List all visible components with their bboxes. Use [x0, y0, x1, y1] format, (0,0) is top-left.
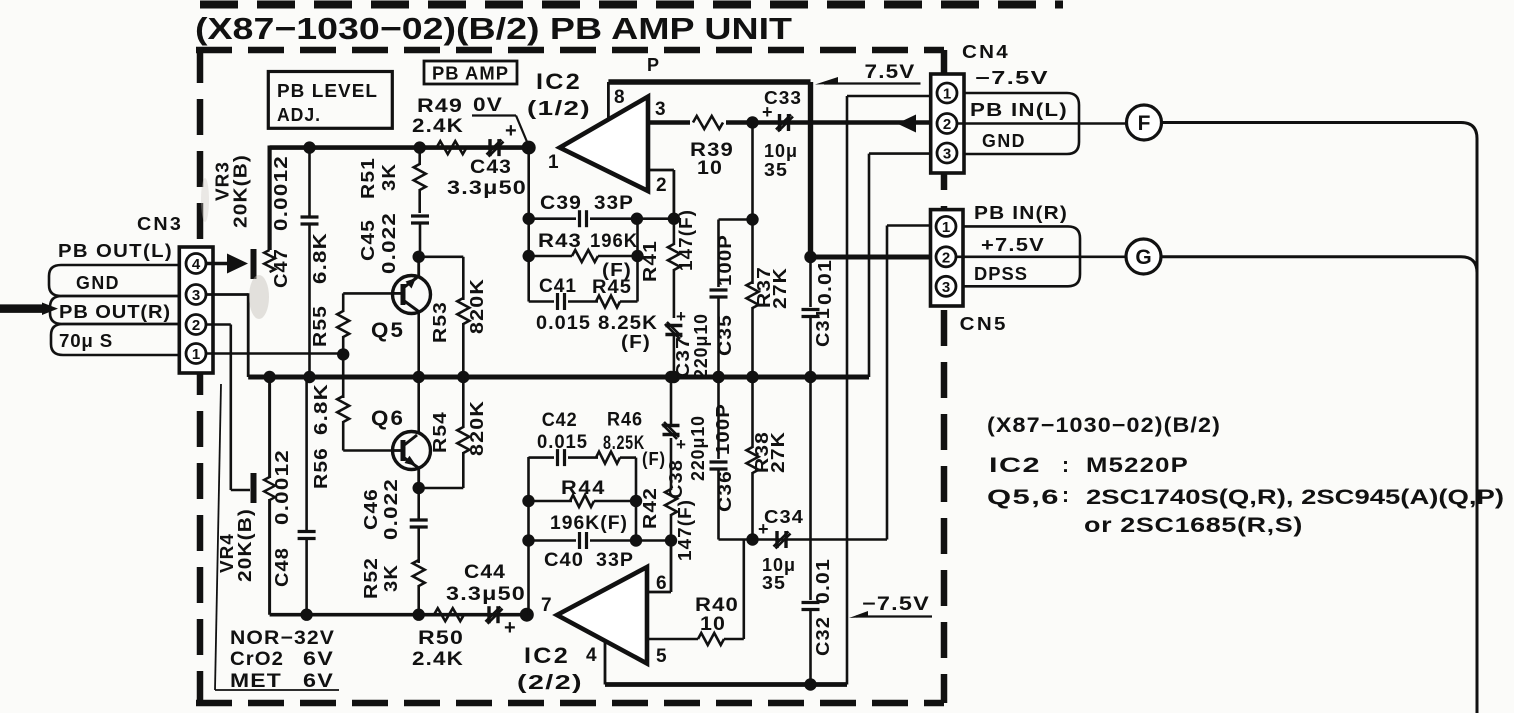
- capacitor C36 100P: [717, 377, 720, 459]
- connector CN3: [179, 247, 213, 373]
- svg-text:C48: C48: [272, 547, 292, 587]
- svg-text:(F): (F): [621, 332, 651, 352]
- svg-text:10μ: 10μ: [764, 141, 798, 161]
- svg-text:C47: C47: [271, 248, 291, 288]
- svg-text:7: 7: [541, 595, 552, 616]
- svg-text:C43: C43: [470, 157, 512, 178]
- svg-text:35: 35: [762, 573, 786, 593]
- svg-text:Q6: Q6: [371, 407, 405, 430]
- svg-text:R56: R56: [311, 447, 331, 489]
- svg-text:6V: 6V: [303, 649, 334, 670]
- wire: inverting node column: [527, 148, 530, 302]
- svg-text:0.0012: 0.0012: [271, 155, 291, 231]
- svg-text:1: 1: [548, 152, 559, 173]
- wire: top signal rail VR3 to IC2 input: [270, 145, 529, 150]
- svg-text:R53: R53: [430, 301, 450, 343]
- svg-text:CN4: CN4: [962, 42, 1010, 62]
- svg-text:2SC1740S(Q,R), 2SC945(A)(Q,P): 2SC1740S(Q,R), 2SC945(A)(Q,P): [1086, 486, 1504, 509]
- svg-text:R54: R54: [430, 411, 450, 453]
- resistor R52 3K: [413, 560, 425, 586]
- svg-text:1: 1: [192, 346, 200, 363]
- wire: G to right edge joining F line: [1161, 257, 1477, 290]
- resistor R53 820K: [457, 298, 469, 324]
- wire: IC2 pin4 supply drop: [604, 641, 607, 685]
- wire: R37 column: [751, 123, 754, 285]
- svg-text:35: 35: [764, 160, 788, 180]
- svg-text:GND: GND: [982, 131, 1026, 151]
- wire: F to right edge and down: [1162, 123, 1478, 713]
- potentiometer VR3 20K(B): [205, 262, 228, 266]
- resistor R39 10: [690, 114, 726, 131]
- wire: CN5 pin1 PB IN(R) drop: [887, 224, 931, 227]
- svg-text::: :: [1062, 484, 1069, 507]
- junction circle G: [1126, 239, 1161, 274]
- svg-text:2: 2: [943, 116, 951, 133]
- svg-text:(2/2): (2/2): [517, 672, 583, 694]
- svg-text:P: P: [647, 55, 659, 75]
- capacitor C35 100P: [710, 288, 728, 291]
- resistor R43 196K(F): [529, 255, 572, 258]
- resistor R56 6.8K: [342, 354, 345, 398]
- svg-text:R41: R41: [640, 240, 660, 282]
- svg-text:3: 3: [942, 279, 950, 296]
- svg-text:CN5: CN5: [960, 314, 1008, 334]
- svg-text::: :: [1062, 454, 1069, 477]
- svg-text:6: 6: [656, 573, 667, 594]
- connector CN5: [931, 210, 964, 306]
- svg-text:ADJ.: ADJ.: [277, 105, 321, 125]
- svg-text:3: 3: [655, 99, 666, 120]
- svg-text:1: 1: [942, 219, 950, 236]
- svg-text:IC2: IC2: [989, 454, 1041, 477]
- capacitor C44 3.3u50 (electrolytic): [487, 606, 490, 623]
- svg-text:C33: C33: [764, 88, 802, 108]
- callout box PB LEVEL ADJ.: [268, 72, 392, 129]
- CN3 pin 3: [186, 285, 206, 305]
- svg-text:PB AMP: PB AMP: [432, 64, 509, 84]
- svg-text:0.015: 0.015: [536, 313, 591, 334]
- potentiometer VR4 20K(B): [251, 473, 257, 503]
- capacitor C33 10u35 (electrolytic): [778, 114, 781, 131]
- capacitor C42 0.015: [529, 456, 555, 459]
- svg-text:NOR−32V: NOR−32V: [230, 628, 335, 649]
- resistor R40 10: [698, 633, 724, 645]
- wire: bottom signal rail to IC2 pin7: [270, 613, 527, 617]
- svg-text:PB IN(R): PB IN(R): [974, 203, 1068, 223]
- svg-text:R43: R43: [538, 231, 582, 252]
- wire: Q6 collector row to R54: [419, 487, 464, 490]
- svg-text:(F): (F): [642, 449, 666, 469]
- wire: inverting node column (bottom): [527, 457, 530, 615]
- svg-text:6.8K: 6.8K: [310, 232, 330, 284]
- svg-text:196K: 196K: [590, 231, 638, 252]
- svg-text:DPSS: DPSS: [974, 264, 1028, 284]
- resistor R51 3K: [418, 148, 421, 165]
- svg-text:C41: C41: [539, 276, 577, 297]
- node label 70uS in rounded box: [51, 324, 179, 355]
- wire: P supply rail: [608, 79, 810, 84]
- svg-text:4: 4: [586, 645, 597, 666]
- svg-text:100P: 100P: [713, 403, 733, 455]
- svg-text:PB LEVEL: PB LEVEL: [277, 81, 378, 101]
- wire: PB IN(L) to circle F: [957, 122, 1127, 125]
- svg-text:3.3μ50: 3.3μ50: [447, 178, 527, 199]
- wire: CN3 pin1 70uS line: [205, 352, 343, 355]
- wire: Q6 base from R56: [343, 449, 394, 452]
- svg-text:70μ S: 70μ S: [59, 331, 113, 351]
- arrow into CN4 pin2: [897, 115, 916, 133]
- wire: dashed edge of adjacent unit at top: [200, 1, 1063, 9]
- svg-text:27K: 27K: [768, 431, 788, 473]
- svg-text:0.01: 0.01: [815, 259, 835, 305]
- svg-text:196K(F): 196K(F): [550, 513, 628, 534]
- svg-text:+: +: [505, 120, 517, 142]
- resistor R54 820K: [462, 377, 465, 428]
- svg-text:20K(B): 20K(B): [231, 154, 251, 228]
- svg-text:R51: R51: [358, 157, 378, 199]
- svg-text:PB IN(L): PB IN(L): [970, 100, 1068, 120]
- svg-text:R49: R49: [417, 96, 463, 117]
- transistor Q6: [417, 377, 420, 432]
- svg-text:IC2: IC2: [536, 69, 582, 94]
- svg-text:8.25K: 8.25K: [603, 433, 645, 454]
- svg-text:G: G: [1135, 246, 1151, 269]
- capacitor C34 10u35 (electrolytic): [775, 531, 778, 548]
- CN5 pin 2: [936, 247, 956, 267]
- CN3 pin 1: [186, 344, 206, 364]
- svg-text:820K: 820K: [467, 278, 487, 334]
- resistor R46 8.25K(F): [596, 452, 620, 464]
- wire: negative supply rail at bottom: [605, 682, 847, 687]
- callout box PB AMP: [424, 61, 517, 84]
- svg-text:10μ: 10μ: [762, 555, 796, 575]
- svg-text:GND: GND: [76, 273, 120, 293]
- wire: Q5 base from R55: [343, 292, 394, 295]
- svg-text:−7.5V: −7.5V: [975, 68, 1049, 88]
- svg-text:2.4K: 2.4K: [412, 649, 464, 670]
- svg-text:20K(B): 20K(B): [235, 508, 255, 582]
- svg-text:C32: C32: [813, 616, 833, 656]
- svg-text:(X87−1030−02)(B/2) PB AMP UNIT: (X87−1030−02)(B/2) PB AMP UNIT: [195, 11, 792, 46]
- svg-text:C37: C37: [673, 336, 693, 378]
- capacitor C48 0.0012: [305, 377, 308, 531]
- IC2 pin 8 supply: [607, 82, 610, 119]
- resistor R49 2.4K: [437, 141, 467, 154]
- CN3 pin 4: [186, 254, 206, 274]
- svg-text:C39: C39: [540, 193, 582, 214]
- node: R37 top junction: [746, 116, 758, 128]
- wire: DPSS row to circle G: [956, 255, 1126, 258]
- scan smudges near VR3: [249, 275, 269, 319]
- CN5 pin 3: [936, 276, 956, 296]
- wire: IC2 pin3 output line: [648, 120, 931, 124]
- svg-text:CN3: CN3: [137, 214, 183, 234]
- svg-text:C42: C42: [542, 410, 578, 431]
- svg-text:1: 1: [943, 86, 951, 103]
- svg-text:2: 2: [942, 249, 950, 266]
- capacitor C37 220u10 (electrolytic): [665, 324, 682, 327]
- resistor R55 6.8K: [342, 293, 345, 312]
- svg-text:VR3: VR3: [213, 161, 233, 201]
- wire: C34 row to CN5 pin1 drop: [719, 538, 888, 541]
- rounded box PB IN(L)/GND: [964, 93, 1079, 154]
- svg-text:3: 3: [192, 287, 200, 304]
- svg-text:or 2SC1685(R,S): or 2SC1685(R,S): [1084, 514, 1303, 537]
- resistor R38 27K: [751, 377, 754, 448]
- svg-text:PB OUT(L): PB OUT(L): [58, 241, 173, 261]
- svg-text:CrO2: CrO2: [230, 649, 284, 670]
- svg-text:220μ10: 220μ10: [688, 415, 708, 481]
- svg-text:C45: C45: [358, 219, 378, 261]
- svg-text:−7.5V: −7.5V: [862, 594, 930, 615]
- svg-text:C36: C36: [715, 470, 735, 512]
- svg-text:33P: 33P: [596, 550, 634, 571]
- svg-text:C46: C46: [361, 488, 381, 530]
- svg-text:(1/2): (1/2): [527, 98, 591, 120]
- svg-text:0.0012: 0.0012: [272, 449, 292, 525]
- svg-text:8: 8: [614, 87, 625, 108]
- svg-text:+: +: [676, 435, 686, 454]
- wire: VR4 column from bus to bottom rail: [268, 377, 271, 478]
- wire: CN3 pin2 line down to VR4: [205, 323, 231, 326]
- svg-text:R40: R40: [695, 595, 739, 616]
- wire: IC2 pin6 to feedback node: [647, 591, 671, 594]
- wire: IC2 pin5 via R40: [647, 638, 698, 641]
- svg-text:0.022: 0.022: [381, 478, 401, 540]
- capacitor C43 3.3u50 (electrolytic): [488, 139, 491, 156]
- svg-text:3: 3: [943, 146, 951, 163]
- svg-text:VR4: VR4: [217, 533, 237, 573]
- node label GND in rounded box: [49, 265, 179, 296]
- PB AMP UNIT dashed boundary box: [196, 47, 944, 54]
- op-amp IC2 1/2: [560, 97, 648, 191]
- svg-text:IC2: IC2: [524, 643, 570, 668]
- svg-text:100P: 100P: [715, 234, 735, 286]
- capacitor C38 220u10 (electrolytic): [663, 424, 680, 427]
- wire: VR3 riser to rail: [268, 146, 272, 251]
- CN4 pin 1: [937, 83, 957, 103]
- svg-text:+: +: [676, 307, 686, 326]
- capacitor C45 0.022: [411, 214, 429, 217]
- svg-text:7.5V: 7.5V: [865, 62, 916, 83]
- resistor R45 8.25K(F): [596, 296, 620, 308]
- svg-text:10: 10: [700, 614, 726, 635]
- wire: shielded cable entry at left: [0, 304, 44, 313]
- resistor R41 147(F): [673, 219, 676, 245]
- CN3 pin 2: [186, 315, 206, 335]
- svg-text:R52: R52: [361, 557, 381, 599]
- capacitor C40 33P / 196K(F) row: [529, 539, 577, 542]
- svg-text:0.01: 0.01: [813, 558, 833, 604]
- resistor R42 147(F): [670, 514, 673, 541]
- svg-text:0.015: 0.015: [537, 432, 588, 453]
- connector CN4: [931, 74, 964, 173]
- svg-text:C44: C44: [464, 562, 506, 583]
- wire: +7.5V DPSS rail to CN5 pin2: [811, 255, 931, 260]
- voltage table pointer line: [215, 384, 221, 690]
- node: IC2 pin7 input junction: [520, 608, 534, 622]
- svg-text:F: F: [1138, 112, 1151, 135]
- svg-text:+7.5V: +7.5V: [981, 235, 1045, 255]
- svg-text:2: 2: [192, 317, 200, 334]
- resistor R44: [529, 500, 573, 503]
- svg-text:6.8K: 6.8K: [311, 383, 331, 435]
- svg-text:6V: 6V: [303, 671, 334, 692]
- svg-text:2: 2: [656, 175, 667, 196]
- op-amp IC2 2/2: [557, 567, 647, 664]
- CN5 pin 1: [936, 216, 956, 236]
- svg-text:C31: C31: [813, 307, 833, 347]
- svg-text:8.25K: 8.25K: [598, 313, 658, 334]
- svg-text:33P: 33P: [594, 193, 634, 214]
- svg-text:R55: R55: [310, 305, 330, 347]
- capacitor C32 0.01: [809, 377, 812, 600]
- capacitor C31 0.01: [809, 257, 812, 307]
- CN4 pin 3: [937, 143, 957, 163]
- svg-text:R44: R44: [561, 478, 606, 499]
- svg-text:(X87−1030−02)(B/2): (X87−1030−02)(B/2): [987, 414, 1221, 437]
- svg-text:Q5,6: Q5,6: [987, 486, 1060, 509]
- rounded box +7.5V/DPSS: [963, 226, 1080, 286]
- capacitor C46 0.022: [417, 488, 420, 519]
- svg-text:147(F): 147(F): [675, 499, 695, 561]
- svg-text:Q5: Q5: [371, 319, 405, 342]
- wire: mid ground bus: [248, 375, 869, 380]
- svg-text:4: 4: [192, 256, 201, 273]
- capacitor C39 33P: [529, 217, 576, 220]
- wire: CN4 pin1 -7.5V drop: [847, 95, 937, 98]
- svg-text:3K: 3K: [379, 163, 399, 191]
- wire: right side of feedback box: [636, 219, 639, 302]
- wire: C35 branch: [719, 218, 753, 221]
- svg-text:2.4K: 2.4K: [412, 116, 464, 137]
- svg-text:MET: MET: [230, 671, 282, 692]
- capacitor C41 0.015: [529, 300, 554, 303]
- wire: CN4 pin3 GND drop: [869, 152, 931, 155]
- svg-text:220μ10: 220μ10: [691, 313, 711, 379]
- svg-text:0.022: 0.022: [379, 212, 399, 274]
- wire: CN3 pin3 to ground bus: [205, 293, 248, 296]
- svg-text:M5220P: M5220P: [1086, 454, 1189, 477]
- svg-text:R46: R46: [607, 410, 643, 431]
- svg-text:R50: R50: [418, 628, 464, 649]
- svg-text:C34: C34: [764, 507, 804, 527]
- svg-text:820K: 820K: [467, 400, 487, 456]
- capacitor C47 0.0012: [308, 148, 311, 216]
- svg-text:R45: R45: [592, 277, 632, 298]
- transistor Q5: [417, 257, 420, 276]
- wire: Q5 collector row to R53: [419, 255, 464, 258]
- svg-text:3K: 3K: [381, 564, 401, 592]
- node label PB OUT(R) in rounded box: [50, 296, 179, 324]
- svg-text:R42: R42: [640, 487, 660, 529]
- svg-text:10: 10: [697, 158, 723, 179]
- resistor R50 2.4K: [434, 608, 464, 621]
- wire: IC2 pin2 to feedback node: [648, 169, 674, 172]
- resistor R37 27K: [747, 282, 759, 308]
- svg-text:27K: 27K: [770, 267, 790, 309]
- svg-text:5: 5: [656, 646, 667, 667]
- node: IC2 pin1 input junction: [522, 141, 536, 155]
- svg-text:C35: C35: [715, 314, 735, 356]
- svg-text:147(F): 147(F): [676, 209, 696, 271]
- svg-text:0V: 0V: [473, 95, 503, 116]
- svg-text:PB OUT(R): PB OUT(R): [59, 302, 171, 322]
- CN4 pin 2: [937, 114, 957, 134]
- svg-text:3.3μ50: 3.3μ50: [446, 584, 526, 605]
- junction circle F: [1127, 105, 1162, 140]
- svg-text:+: +: [504, 617, 516, 639]
- svg-text:C40: C40: [544, 550, 584, 571]
- svg-text:C38: C38: [666, 459, 686, 499]
